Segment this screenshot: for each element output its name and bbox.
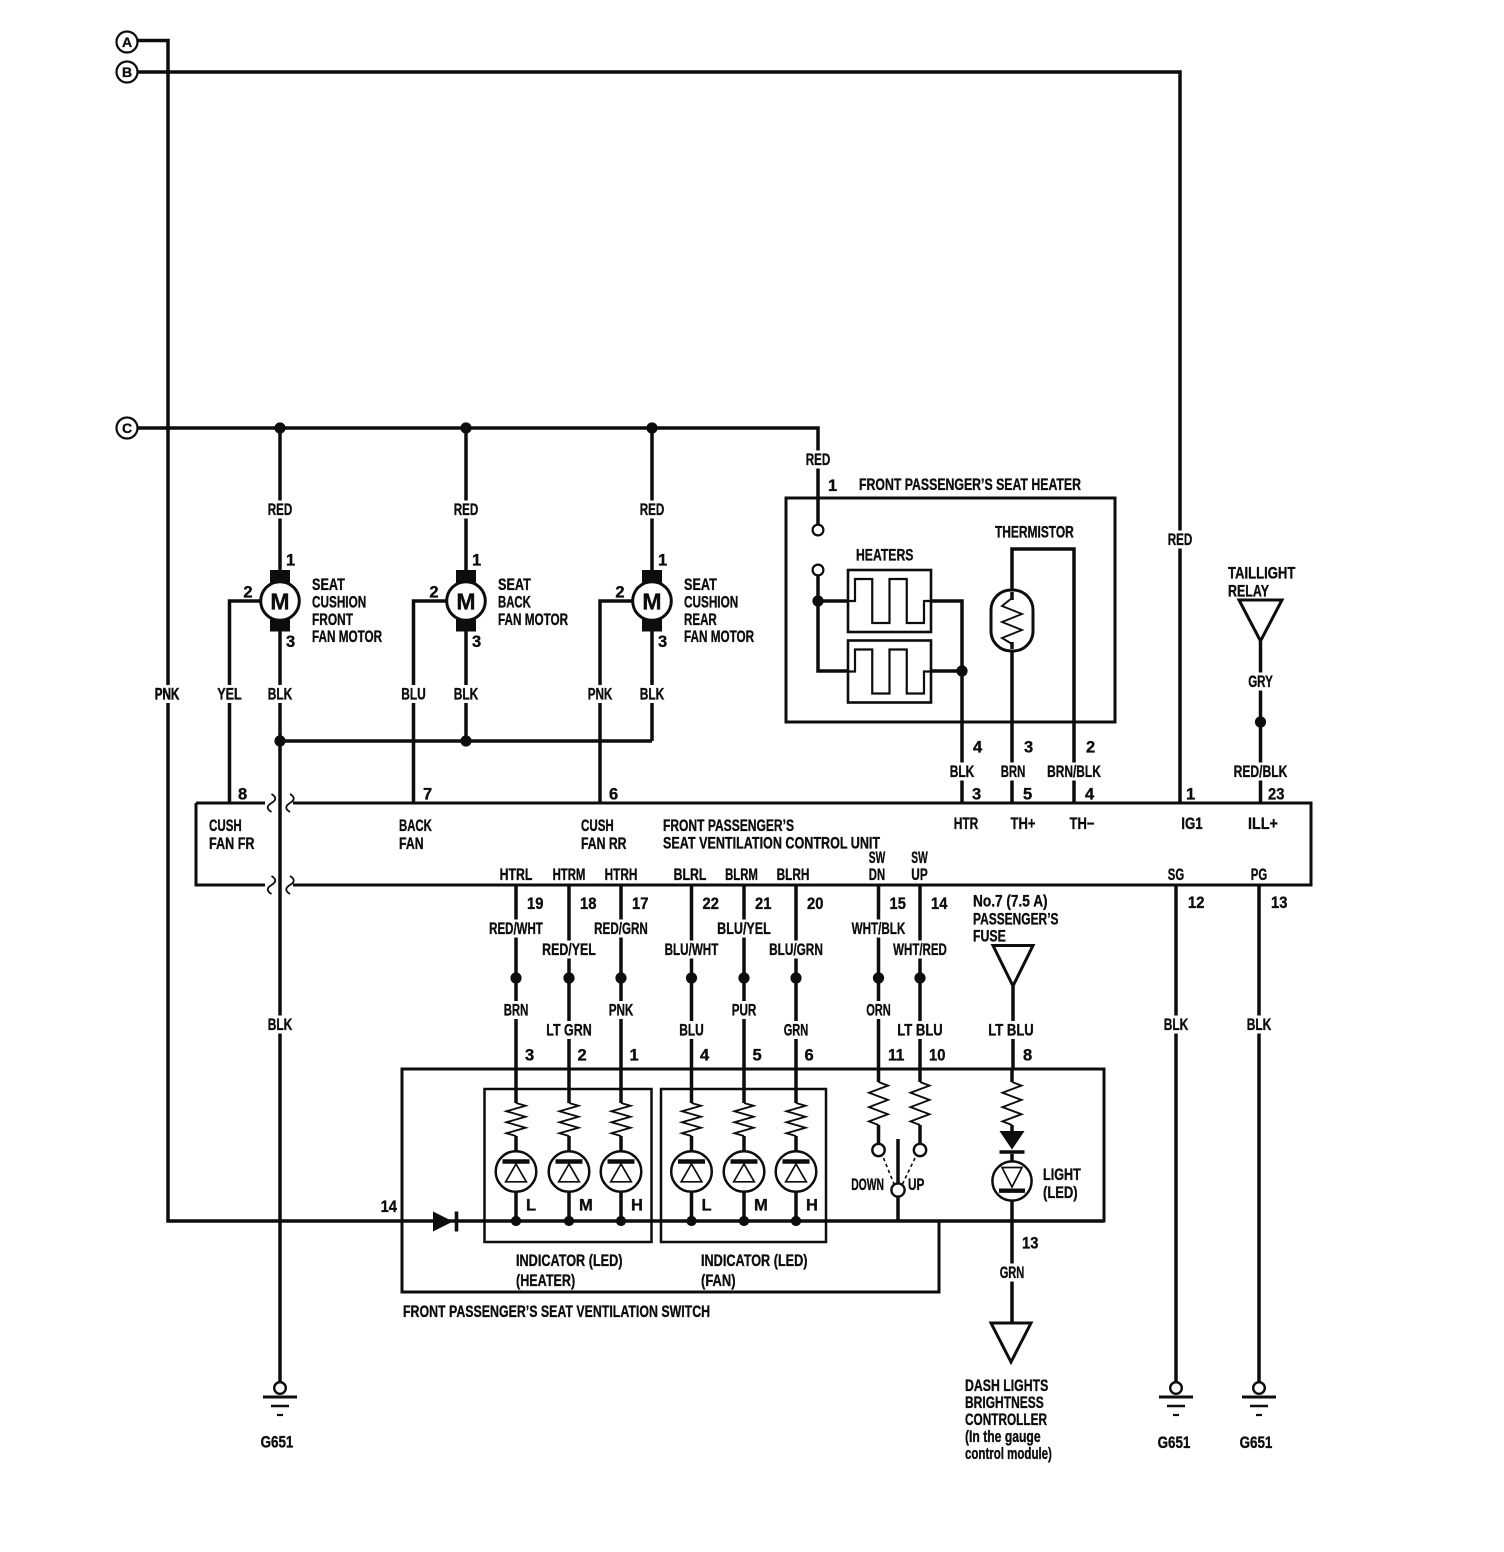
svg-text:LT GRN: LT GRN — [546, 1022, 592, 1040]
svg-text:20: 20 — [807, 895, 823, 913]
svg-text:(FAN): (FAN) — [701, 1272, 736, 1290]
svg-text:(In the gauge: (In the gauge — [965, 1428, 1041, 1446]
svg-text:3: 3 — [525, 1047, 534, 1065]
svg-text:DOWN: DOWN — [851, 1176, 884, 1194]
svg-text:M: M — [642, 589, 661, 615]
svg-text:8: 8 — [238, 786, 247, 804]
svg-text:7: 7 — [423, 786, 432, 804]
svg-text:4: 4 — [1085, 786, 1095, 804]
svg-text:SG: SG — [1168, 866, 1184, 884]
svg-text:CUSH: CUSH — [581, 817, 614, 835]
svg-text:A: A — [122, 34, 132, 50]
svg-text:3: 3 — [658, 633, 667, 651]
svg-text:19: 19 — [527, 895, 543, 913]
svg-text:INDICATOR (LED): INDICATOR (LED) — [701, 1252, 808, 1270]
svg-text:GRN: GRN — [1000, 1264, 1025, 1282]
svg-text:PUR: PUR — [732, 1002, 757, 1020]
svg-text:1: 1 — [286, 552, 295, 570]
svg-text:(LED): (LED) — [1043, 1184, 1078, 1202]
svg-text:B: B — [122, 64, 132, 80]
svg-text:PNK: PNK — [609, 1002, 634, 1020]
svg-text:17: 17 — [632, 895, 648, 913]
svg-text:BLK: BLK — [640, 686, 665, 704]
svg-text:GRY: GRY — [1248, 673, 1273, 691]
svg-text:HTRM: HTRM — [553, 866, 586, 884]
svg-text:TAILLIGHT: TAILLIGHT — [1228, 565, 1295, 583]
svg-text:REAR: REAR — [684, 611, 717, 629]
svg-text:WHT/RED: WHT/RED — [893, 941, 947, 959]
svg-text:SW: SW — [911, 849, 928, 867]
svg-text:RED/WHT: RED/WHT — [489, 920, 543, 938]
svg-text:11: 11 — [888, 1047, 904, 1065]
svg-text:23: 23 — [1268, 786, 1284, 804]
svg-text:14: 14 — [381, 1198, 398, 1216]
svg-text:CUSH: CUSH — [209, 817, 242, 835]
svg-text:8: 8 — [1023, 1047, 1032, 1065]
svg-text:3: 3 — [972, 786, 981, 804]
svg-text:4: 4 — [973, 739, 983, 757]
svg-text:SEAT: SEAT — [684, 576, 717, 594]
svg-text:IG1: IG1 — [1181, 815, 1202, 833]
svg-text:BLRH: BLRH — [777, 866, 810, 884]
svg-text:FAN MOTOR: FAN MOTOR — [684, 628, 754, 646]
svg-text:HTR: HTR — [954, 815, 979, 833]
svg-text:RED: RED — [454, 501, 479, 519]
svg-text:1: 1 — [828, 477, 837, 495]
svg-text:SEAT: SEAT — [498, 576, 531, 594]
svg-text:GRN: GRN — [784, 1022, 809, 1040]
svg-text:RELAY: RELAY — [1228, 583, 1269, 601]
svg-text:5: 5 — [753, 1047, 762, 1065]
svg-text:INDICATOR (LED): INDICATOR (LED) — [516, 1252, 623, 1270]
svg-text:1: 1 — [472, 552, 481, 570]
svg-text:LT BLU: LT BLU — [897, 1022, 943, 1040]
svg-text:G651: G651 — [1240, 1434, 1273, 1452]
svg-text:H: H — [631, 1197, 643, 1215]
svg-text:BLU/WHT: BLU/WHT — [665, 941, 719, 959]
svg-text:RED/GRN: RED/GRN — [594, 920, 648, 938]
svg-text:PASSENGER’S: PASSENGER’S — [973, 911, 1059, 929]
svg-text:BRN: BRN — [1001, 763, 1026, 781]
svg-text:H: H — [806, 1197, 818, 1215]
svg-text:No.7 (7.5 A): No.7 (7.5 A) — [973, 893, 1048, 911]
svg-text:2: 2 — [615, 584, 624, 602]
svg-text:M: M — [754, 1197, 768, 1215]
svg-text:BLRM: BLRM — [725, 866, 758, 884]
svg-text:2: 2 — [578, 1047, 587, 1065]
svg-text:M: M — [579, 1197, 593, 1215]
svg-text:4: 4 — [700, 1047, 710, 1065]
svg-text:ORN: ORN — [866, 1002, 891, 1020]
svg-text:PG: PG — [1251, 866, 1267, 884]
svg-text:CUSHION: CUSHION — [684, 593, 738, 611]
svg-text:5: 5 — [1023, 786, 1032, 804]
svg-text:13: 13 — [1271, 894, 1287, 912]
svg-text:RED: RED — [1168, 531, 1193, 549]
svg-text:PNK: PNK — [155, 686, 180, 704]
svg-text:LT BLU: LT BLU — [988, 1022, 1034, 1040]
svg-text:TH−: TH− — [1070, 815, 1095, 833]
svg-text:FAN RR: FAN RR — [581, 835, 627, 853]
svg-text:BLU: BLU — [401, 686, 426, 704]
svg-text:15: 15 — [890, 895, 906, 913]
svg-text:2: 2 — [243, 584, 252, 602]
svg-text:HTRL: HTRL — [500, 866, 533, 884]
svg-text:3: 3 — [472, 633, 481, 651]
svg-text:PNK: PNK — [588, 686, 613, 704]
svg-text:FAN FR: FAN FR — [209, 835, 255, 853]
svg-text:SEAT VENTILATION CONTROL UNIT: SEAT VENTILATION CONTROL UNIT — [663, 835, 880, 853]
svg-text:RED: RED — [640, 501, 665, 519]
svg-text:(HEATER): (HEATER) — [516, 1272, 575, 1290]
svg-text:RED/BLK: RED/BLK — [1234, 763, 1288, 781]
svg-text:CONTROLLER: CONTROLLER — [965, 1411, 1047, 1429]
svg-text:2: 2 — [1086, 739, 1095, 757]
svg-text:HEATERS: HEATERS — [856, 547, 913, 565]
svg-text:FAN MOTOR: FAN MOTOR — [312, 628, 382, 646]
svg-text:BLK: BLK — [454, 686, 479, 704]
svg-text:M: M — [270, 589, 289, 615]
svg-text:6: 6 — [805, 1047, 814, 1065]
svg-text:1: 1 — [630, 1047, 639, 1065]
svg-text:FUSE: FUSE — [973, 928, 1006, 946]
svg-text:BLK: BLK — [1247, 1016, 1272, 1034]
svg-text:M: M — [456, 589, 475, 615]
svg-text:FRONT: FRONT — [312, 611, 353, 629]
svg-text:1: 1 — [1186, 786, 1195, 804]
svg-text:ILL+: ILL+ — [1248, 815, 1278, 833]
svg-text:CUSHION: CUSHION — [312, 593, 366, 611]
svg-text:2: 2 — [429, 584, 438, 602]
svg-text:13: 13 — [1022, 1235, 1038, 1253]
svg-text:12: 12 — [1188, 894, 1204, 912]
svg-text:22: 22 — [703, 895, 719, 913]
svg-text:BLK: BLK — [1164, 1016, 1189, 1034]
svg-text:BRIGHTNESS: BRIGHTNESS — [965, 1394, 1044, 1412]
svg-text:BLK: BLK — [268, 1016, 293, 1034]
svg-text:UP: UP — [911, 866, 927, 884]
svg-text:SEAT: SEAT — [312, 576, 345, 594]
svg-text:RED: RED — [268, 501, 293, 519]
svg-text:LIGHT: LIGHT — [1043, 1166, 1081, 1184]
svg-text:10: 10 — [929, 1047, 945, 1065]
svg-text:FRONT PASSENGER’S SEAT HEATER: FRONT PASSENGER’S SEAT HEATER — [859, 476, 1081, 494]
svg-text:L: L — [526, 1197, 536, 1215]
svg-text:FRONT PASSENGER’S SEAT VENTILA: FRONT PASSENGER’S SEAT VENTILATION SWITC… — [403, 1303, 710, 1321]
svg-text:BRN: BRN — [504, 1002, 529, 1020]
svg-text:G651: G651 — [261, 1434, 294, 1452]
svg-text:BLU/YEL: BLU/YEL — [717, 920, 771, 938]
svg-text:3: 3 — [1024, 739, 1033, 757]
svg-text:DASH LIGHTS: DASH LIGHTS — [965, 1377, 1048, 1395]
svg-text:1: 1 — [658, 552, 667, 570]
svg-text:BLU/GRN: BLU/GRN — [769, 941, 823, 959]
svg-text:21: 21 — [755, 895, 771, 913]
svg-text:FAN: FAN — [399, 835, 424, 853]
svg-text:DN: DN — [869, 866, 885, 884]
svg-text:TH+: TH+ — [1011, 815, 1036, 833]
svg-text:BACK: BACK — [498, 593, 531, 611]
svg-text:BACK: BACK — [399, 817, 432, 835]
svg-text:BLRL: BLRL — [674, 866, 707, 884]
svg-text:14: 14 — [931, 895, 948, 913]
svg-text:BRN/BLK: BRN/BLK — [1047, 763, 1101, 781]
svg-text:C: C — [122, 420, 132, 436]
svg-text:WHT/BLK: WHT/BLK — [852, 920, 906, 938]
svg-text:6: 6 — [609, 786, 618, 804]
svg-text:BLU: BLU — [679, 1022, 704, 1040]
svg-text:FRONT PASSENGER’S: FRONT PASSENGER’S — [663, 817, 794, 835]
svg-text:SW: SW — [869, 849, 886, 867]
svg-text:UP: UP — [908, 1176, 924, 1194]
svg-text:18: 18 — [580, 895, 596, 913]
svg-text:L: L — [702, 1197, 712, 1215]
svg-text:FAN MOTOR: FAN MOTOR — [498, 611, 568, 629]
svg-text:RED: RED — [806, 451, 831, 469]
svg-text:RED/YEL: RED/YEL — [542, 941, 596, 959]
svg-text:BLK: BLK — [950, 763, 975, 781]
svg-text:THERMISTOR: THERMISTOR — [995, 524, 1074, 542]
svg-text:3: 3 — [286, 633, 295, 651]
svg-text:YEL: YEL — [217, 686, 242, 704]
svg-text:BLK: BLK — [268, 686, 293, 704]
svg-text:HTRH: HTRH — [605, 866, 638, 884]
svg-text:control module): control module) — [965, 1445, 1052, 1463]
svg-text:G651: G651 — [1158, 1434, 1191, 1452]
